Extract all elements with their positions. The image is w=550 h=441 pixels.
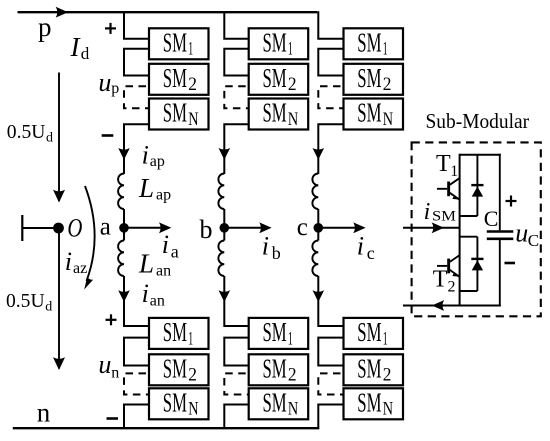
label + (upper arm up): [105, 27, 116, 29]
svg-text:an: an: [156, 263, 171, 280]
svg-text:2: 2: [188, 365, 197, 386]
svg-text:SM: SM: [357, 353, 381, 384]
wire sub-module main vertical: [459, 154, 461, 307]
wire bus drop to SM1 upper arm phase a: [124, 11, 149, 39]
arrow arm current upper phase c: [313, 148, 325, 160]
submodule SM1 lower arm phase a: [149, 318, 209, 349]
wire bus drop to SM1 upper arm phase c: [318, 11, 343, 39]
submodule SMN lower arm phase b: [249, 388, 309, 419]
svg-text:SM: SM: [357, 27, 381, 58]
node O dot: [53, 223, 64, 234]
svg-text:0.5U: 0.5U: [6, 290, 45, 312]
svg-text:SM: SM: [163, 387, 187, 418]
svg-text:b: b: [200, 215, 213, 244]
transistor T1: [437, 188, 447, 190]
inductor lower arm phase c: [312, 241, 318, 277]
svg-text:b: b: [272, 243, 281, 263]
svg-text:SM: SM: [263, 387, 287, 418]
svg-text:1: 1: [450, 163, 458, 180]
svg-text:1: 1: [288, 39, 293, 60]
svg-text:c: c: [367, 243, 375, 263]
arrow 0.5Ud lower measure: [58, 233, 60, 369]
svg-text:i: i: [424, 199, 431, 225]
svg-text:0.5U: 0.5U: [7, 121, 46, 143]
transistor T2: [437, 265, 447, 267]
terminal bar at O: [21, 215, 23, 241]
submodule SMN upper arm phase c: [344, 99, 404, 130]
wire SMN to bottom bus phase b: [224, 405, 248, 430]
svg-text:2: 2: [288, 365, 297, 386]
wire iSM input line: [403, 227, 460, 229]
svg-text:T: T: [433, 266, 448, 292]
svg-text:N: N: [188, 109, 198, 130]
svg-text:N: N: [288, 399, 298, 420]
svg-text:SM: SM: [163, 353, 187, 384]
svg-text:SM: SM: [263, 62, 287, 93]
svg-text:p: p: [38, 12, 52, 42]
svg-text:I: I: [70, 32, 82, 62]
wire SM1-SM2 link lower arm phase a: [124, 338, 149, 366]
wire inductor to SM1 lower arm phase a: [124, 276, 149, 326]
wire dashed SM2-SMN link upper arm phase a: [124, 86, 148, 108]
submodule SM1 lower arm phase b: [249, 318, 309, 349]
label + (lower arm): [106, 319, 117, 321]
submodule SM2 upper arm phase b: [249, 64, 309, 95]
arrow arm current lower phase a: [118, 290, 130, 302]
svg-text:a: a: [100, 213, 111, 240]
svg-text:T: T: [436, 151, 451, 177]
svg-text:i: i: [162, 230, 169, 259]
submodule SM1 upper arm phase c: [344, 28, 404, 59]
wire inductor to node c: [317, 209, 319, 241]
svg-text:L: L: [138, 173, 154, 203]
wire inductor to SM1 lower arm phase c: [318, 276, 343, 326]
wire D2 bottom jog: [460, 290, 478, 292]
svg-text:az: az: [73, 260, 87, 277]
svg-text:ap: ap: [156, 186, 171, 203]
svg-text:d: d: [45, 300, 52, 315]
svg-text:1: 1: [383, 39, 388, 60]
arrow 0.5Ud upper measure: [58, 73, 60, 202]
wire sub-module top rail: [460, 154, 501, 156]
svg-text:Sub-Modular: Sub-Modular: [426, 109, 530, 133]
svg-text:ap: ap: [150, 153, 165, 170]
wire SM1-SM2 link lower arm phase c: [318, 338, 343, 366]
arrow Id direction on top bus: [56, 7, 68, 18]
submodule SM2 lower arm phase c: [344, 354, 404, 385]
arc iaz circulating current: [85, 186, 95, 281]
svg-text:SM: SM: [432, 208, 456, 224]
svg-text:N: N: [188, 399, 198, 420]
svg-text:1: 1: [188, 39, 193, 60]
svg-text:SM: SM: [263, 353, 287, 384]
wire node O horizontal: [22, 227, 58, 229]
dashed sub-module boundary box: [412, 142, 541, 316]
svg-text:2: 2: [188, 74, 197, 95]
svg-text:SM: SM: [357, 97, 381, 128]
svg-text:i: i: [65, 247, 72, 276]
inductor lower arm phase a: [118, 241, 124, 277]
wire inductor to node a: [123, 209, 125, 241]
submodule SM1 lower arm phase c: [344, 318, 404, 349]
svg-text:SM: SM: [357, 316, 381, 347]
wire dashed SM2-SMN link upper arm phase b: [224, 86, 247, 108]
submodule SMN upper arm phase a: [149, 99, 209, 130]
submodule SMN lower arm phase a: [149, 388, 209, 419]
wire D2 top jog: [460, 236, 478, 238]
submodule SM2 upper arm phase a: [149, 64, 209, 95]
svg-text:C: C: [528, 231, 539, 250]
svg-text:1: 1: [288, 328, 293, 349]
wire dashed SM2-SMN link lower arm phase b: [224, 373, 247, 394]
svg-text:i: i: [142, 279, 149, 308]
wire sub-module bottom rail with output arrow: [403, 305, 501, 307]
submodule SM2 lower arm phase b: [249, 354, 309, 385]
svg-text:C: C: [484, 206, 499, 231]
label - (upper arm un... up minus): [102, 134, 114, 137]
wire SM1-SM2 link upper arm phase c: [318, 49, 343, 76]
svg-text:i: i: [262, 232, 269, 261]
inductor upper arm phase a: [118, 174, 124, 210]
diode D1 antiparallel: [476, 155, 478, 216]
wire dashed SM2-SMN link lower arm phase c: [318, 373, 342, 394]
svg-text:n: n: [37, 397, 51, 427]
svg-text:i: i: [357, 232, 364, 261]
svg-text:SM: SM: [263, 316, 287, 347]
svg-text:N: N: [383, 109, 393, 130]
arrow arm current upper phase b: [219, 148, 231, 160]
svg-text:2: 2: [448, 279, 456, 296]
label - (capacitor): [505, 262, 516, 265]
svg-text:i: i: [142, 141, 149, 170]
svg-text:p: p: [111, 80, 119, 97]
svg-text:u: u: [515, 218, 528, 247]
wire SMN to bottom bus phase c: [318, 405, 343, 430]
svg-text:d: d: [81, 44, 90, 63]
svg-text:2: 2: [288, 74, 297, 95]
svg-text:SM: SM: [357, 62, 381, 93]
wire SMN to bottom bus phase a: [124, 405, 149, 430]
diode D2 antiparallel: [476, 237, 478, 291]
arrow output current ib: [227, 227, 266, 229]
svg-text:1: 1: [188, 328, 193, 349]
svg-text:u: u: [98, 350, 111, 379]
inductor lower arm phase b: [218, 241, 224, 277]
svg-text:N: N: [383, 399, 393, 420]
wire inductor to SM1 lower arm phase b: [224, 276, 248, 326]
wire SMN to arm inductor phase c: [318, 124, 343, 174]
submodule SM2 lower arm phase a: [149, 354, 209, 385]
capacitor C: [499, 154, 501, 231]
svg-text:N: N: [288, 109, 298, 130]
svg-text:u: u: [98, 68, 111, 97]
wire top bus (node p): [18, 11, 318, 13]
wire SM1-SM2 link upper arm phase a: [124, 49, 149, 76]
svg-text:1: 1: [383, 328, 388, 349]
wire SM1-SM2 link upper arm phase b: [224, 49, 248, 76]
wire dashed SM2-SMN link upper arm phase c: [318, 86, 342, 108]
submodule SMN upper arm phase b: [249, 99, 309, 130]
wire bus drop to SM1 upper arm phase b: [224, 11, 248, 39]
arrow output current ic: [321, 227, 360, 229]
svg-text:2: 2: [383, 74, 392, 95]
wire D1 bottom jog: [460, 215, 478, 217]
wire SMN to arm inductor phase a: [124, 124, 149, 174]
arrow arm current lower phase b: [219, 290, 231, 302]
arrow output current ia: [127, 227, 166, 229]
arrow arm current upper phase a: [118, 148, 130, 160]
node a junction dot: [119, 223, 129, 233]
submodule SM2 upper arm phase c: [344, 64, 404, 95]
arrow arm current lower phase c: [313, 290, 325, 302]
svg-text:n: n: [111, 364, 119, 381]
svg-text:SM: SM: [263, 97, 287, 128]
svg-text:SM: SM: [163, 97, 187, 128]
svg-text:an: an: [150, 293, 165, 310]
label + (capacitor): [506, 200, 517, 202]
svg-text:a: a: [171, 242, 179, 262]
wire inductor to node b: [223, 209, 225, 241]
svg-text:SM: SM: [163, 62, 187, 93]
svg-text:SM: SM: [357, 387, 381, 418]
svg-text:SM: SM: [263, 27, 287, 58]
node c junction dot: [314, 223, 324, 233]
svg-text:d: d: [46, 131, 53, 146]
submodule SM1 upper arm phase b: [249, 28, 309, 59]
inductor upper arm phase c: [312, 174, 318, 210]
wire dashed SM2-SMN link lower arm phase a: [124, 373, 148, 394]
wire SMN to arm inductor phase b: [224, 124, 248, 174]
submodule SMN lower arm phase c: [344, 388, 404, 419]
svg-text:SM: SM: [163, 27, 187, 58]
svg-text:SM: SM: [163, 316, 187, 347]
submodule SM1 upper arm phase a: [149, 28, 209, 59]
wire bottom bus (node n): [13, 427, 319, 429]
inductor upper arm phase b: [218, 174, 224, 210]
svg-text:L: L: [138, 249, 154, 279]
node b junction dot: [220, 223, 230, 233]
label - (lower arm): [107, 417, 119, 420]
svg-text:2: 2: [383, 365, 392, 386]
svg-text:c: c: [297, 214, 308, 241]
wire SM1-SM2 link lower arm phase b: [224, 338, 248, 366]
svg-text:O: O: [67, 214, 82, 243]
